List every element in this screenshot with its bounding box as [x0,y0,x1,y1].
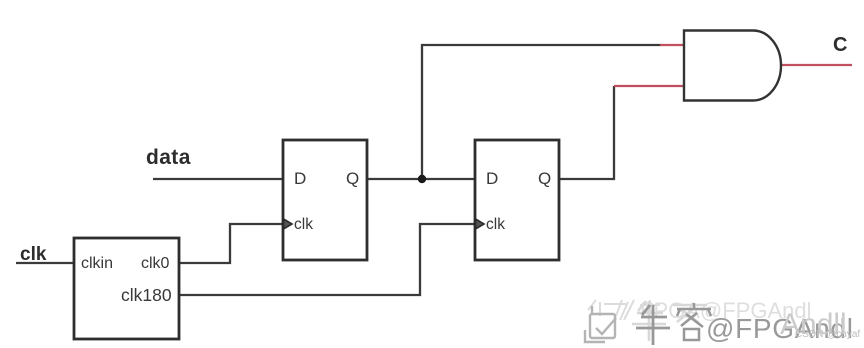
svg-text:D: D [294,169,306,188]
svg-text:clk: clk [294,216,313,233]
svg-text:clk0: clk0 [141,255,170,272]
svg-text:Q: Q [346,169,359,188]
svg-text:clk: clk [20,244,47,265]
svg-text:clkin: clkin [81,255,113,272]
svg-text:clk: clk [486,216,505,233]
svg-text:clk180: clk180 [121,285,172,305]
svg-text:Q: Q [538,169,551,188]
svg-text:C: C [833,34,847,56]
svg-text:CSDN @cuyaf: CSDN @cuyaf [795,329,860,340]
svg-text:data: data [146,146,191,169]
svg-text:D: D [486,169,498,188]
